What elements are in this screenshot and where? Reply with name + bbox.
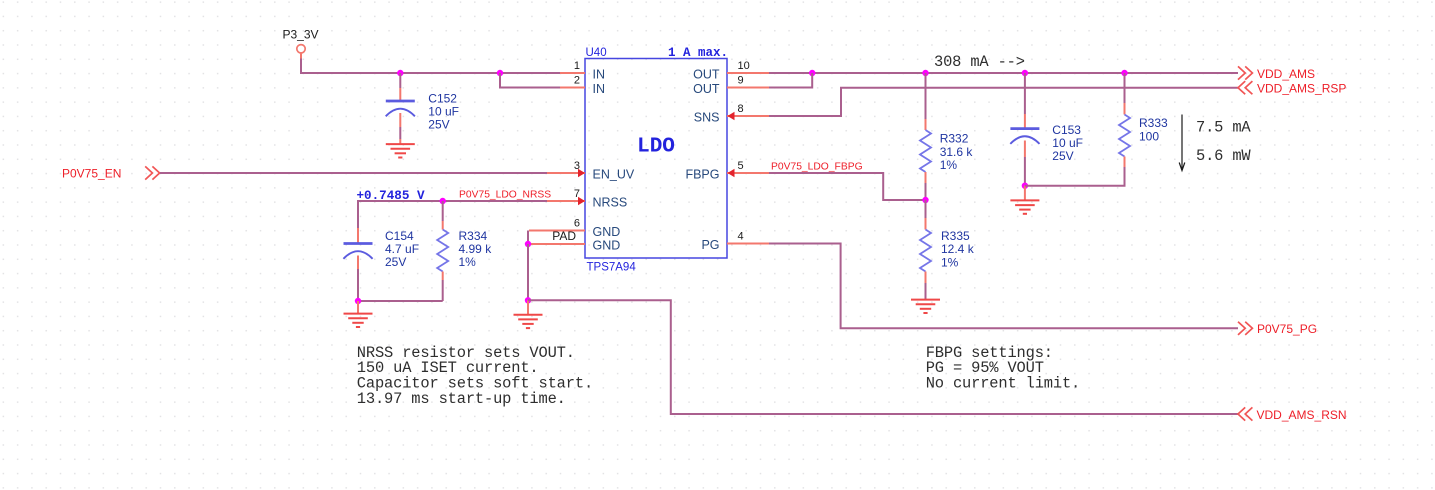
svg-text:25V: 25V xyxy=(428,118,449,132)
ground under C153 xyxy=(1010,186,1039,214)
current arrow 7.5 mA xyxy=(1179,115,1185,171)
svg-text:P0V75_EN: P0V75_EN xyxy=(62,166,121,180)
svg-text:1%: 1% xyxy=(940,158,958,172)
svg-text:R334: R334 xyxy=(459,229,488,243)
svg-text:1 A max.: 1 A max. xyxy=(668,46,728,60)
capacitor C154 xyxy=(343,228,372,301)
svg-text:FBPG: FBPG xyxy=(685,168,719,182)
svg-text:TPS7A94: TPS7A94 xyxy=(587,262,637,274)
svg-text:1: 1 xyxy=(574,60,580,72)
capacitor C153 xyxy=(1010,73,1039,186)
svg-text:R335: R335 xyxy=(941,229,970,243)
C154 value labels xyxy=(385,229,419,269)
wire C154 to R334 bottom xyxy=(358,300,443,302)
svg-text:EN_UV: EN_UV xyxy=(593,168,635,182)
pin 8 SNS xyxy=(694,103,769,125)
svg-text:P0V75_LDO_NRSS: P0V75_LDO_NRSS xyxy=(459,190,551,201)
svg-text:25V: 25V xyxy=(1052,149,1073,163)
junction C153 tap xyxy=(1022,70,1028,76)
svg-text:P0V75_PG: P0V75_PG xyxy=(1257,322,1317,336)
annotation FBPG notes xyxy=(926,344,1080,393)
op-amp U40 body (LDO) xyxy=(585,59,727,259)
svg-text:100: 100 xyxy=(1139,130,1159,144)
junction at R334 tap xyxy=(440,198,446,204)
svg-text:IN: IN xyxy=(593,82,606,96)
wire pin 9 riser xyxy=(769,73,812,88)
svg-text:5: 5 xyxy=(738,160,744,172)
svg-text:5.6 mW: 5.6 mW xyxy=(1196,147,1251,165)
junction R332 R335 FBPG xyxy=(922,197,928,203)
svg-text:13.97 ms start-up time.: 13.97 ms start-up time. xyxy=(357,390,566,408)
svg-text:VDD_AMS_RSP: VDD_AMS_RSP xyxy=(1257,81,1346,95)
svg-text:4.99 k: 4.99 k xyxy=(459,242,493,256)
junction ground RSN tap xyxy=(525,297,531,303)
svg-text:25V: 25V xyxy=(385,255,406,269)
wire P3_3V to pin 1 xyxy=(301,59,560,74)
port P0V75_PG xyxy=(1238,322,1252,335)
C153 value labels xyxy=(1052,123,1083,163)
junction at C152 tap xyxy=(397,70,403,76)
junction at pin 2 riser xyxy=(497,70,503,76)
resistor R333 xyxy=(1119,73,1130,167)
svg-text:PG: PG xyxy=(701,238,719,252)
pin 3 EN_UV xyxy=(547,160,635,182)
svg-text:308 mA -->: 308 mA --> xyxy=(934,53,1025,71)
R333 value labels xyxy=(1139,116,1168,144)
pin 10 OUT xyxy=(693,60,769,82)
pin 6 GND xyxy=(529,218,620,240)
pin PAD GND xyxy=(528,229,620,253)
wire VDD_AMS_RSP xyxy=(769,88,1238,116)
pin 5 FBPG xyxy=(685,160,769,182)
svg-text:C154: C154 xyxy=(385,229,414,243)
svg-text:6: 6 xyxy=(574,218,580,230)
pin 2 IN xyxy=(560,75,605,97)
svg-text:No current limit.: No current limit. xyxy=(926,375,1080,393)
ground at PAD xyxy=(514,300,543,328)
svg-text:10 uF: 10 uF xyxy=(428,105,459,119)
pin 9 OUT xyxy=(693,75,769,97)
svg-text:LDO: LDO xyxy=(637,136,675,159)
svg-text:1%: 1% xyxy=(941,256,959,270)
svg-text:IN: IN xyxy=(593,68,606,82)
capacitor C152 xyxy=(386,73,415,144)
svg-text:C153: C153 xyxy=(1052,123,1081,137)
junction C153 bottom xyxy=(1022,183,1028,189)
wire pin 2 riser xyxy=(500,73,560,88)
resistor R332 xyxy=(920,73,931,200)
wire pin 6 elbow to PAD xyxy=(527,231,529,245)
svg-text:R333: R333 xyxy=(1139,116,1168,130)
junction pin 9 riser xyxy=(809,70,815,76)
resistor R335 xyxy=(920,200,931,300)
wire FBPG net xyxy=(769,173,926,200)
ground under C152 xyxy=(386,144,415,157)
port VDD_AMS_RSN xyxy=(1238,407,1252,420)
svg-text:U40: U40 xyxy=(586,47,607,59)
wire +0.7485V node to pin 7 xyxy=(358,201,547,228)
svg-text:3: 3 xyxy=(574,160,580,172)
svg-text:7: 7 xyxy=(574,188,580,200)
svg-text:7.5 mA: 7.5 mA xyxy=(1196,118,1251,136)
annotation NRSS notes xyxy=(357,344,593,408)
wire P0V75_PG xyxy=(769,244,1238,329)
svg-text:OUT: OUT xyxy=(693,68,720,82)
svg-text:R332: R332 xyxy=(940,132,969,146)
svg-text:PAD: PAD xyxy=(552,229,576,243)
svg-text:4.7 uF: 4.7 uF xyxy=(385,242,419,256)
svg-text:10: 10 xyxy=(738,60,750,72)
svg-text:GND: GND xyxy=(593,225,621,239)
svg-text:P3_3V: P3_3V xyxy=(282,28,318,42)
svg-text:VDD_AMS_RSN: VDD_AMS_RSN xyxy=(1257,408,1347,422)
ground under R335 xyxy=(911,300,940,313)
R332 value labels xyxy=(940,132,974,173)
wire P0V75_EN to pin 3 xyxy=(160,172,547,174)
svg-text:C152: C152 xyxy=(428,92,457,106)
input port P0V75_EN xyxy=(145,166,159,179)
svg-text:4: 4 xyxy=(738,231,744,243)
R335 value labels xyxy=(941,229,975,270)
svg-text:12.4 k: 12.4 k xyxy=(941,242,975,256)
svg-text:1%: 1% xyxy=(459,255,477,269)
svg-text:2: 2 xyxy=(574,75,580,87)
ground under C154 xyxy=(344,301,373,327)
svg-text:GND: GND xyxy=(593,239,621,253)
svg-text:VDD_AMS: VDD_AMS xyxy=(1257,67,1315,81)
wire PAD node down xyxy=(527,244,529,300)
R334 value labels xyxy=(459,229,493,269)
svg-text:9: 9 xyxy=(738,75,744,87)
svg-text:NRSS: NRSS xyxy=(593,196,628,210)
wire C153 to R333 bottom xyxy=(1025,167,1125,186)
pin 4 PG xyxy=(701,231,769,253)
svg-text:8: 8 xyxy=(738,103,744,115)
junction C154/R334 bottom xyxy=(355,298,361,304)
svg-text:31.6 k: 31.6 k xyxy=(940,145,974,159)
power symbol P3_3V xyxy=(297,45,305,59)
pin 7 NRSS xyxy=(547,188,627,210)
port VDD_AMS xyxy=(1238,66,1252,79)
svg-text:P0V75_LDO_FBPG: P0V75_LDO_FBPG xyxy=(771,161,863,172)
junction R333 tap xyxy=(1121,70,1127,76)
pin 1 IN xyxy=(560,60,605,82)
C152 value labels xyxy=(428,92,459,132)
resistor R334 xyxy=(437,201,448,301)
svg-text:SNS: SNS xyxy=(694,111,720,125)
svg-text:OUT: OUT xyxy=(693,82,720,96)
port VDD_AMS_RSP xyxy=(1238,81,1252,94)
junction PAD node xyxy=(525,241,531,247)
junction R332 tap xyxy=(922,70,928,76)
wire VDD_AMS_RSN xyxy=(528,300,1238,414)
wire VDD_AMS xyxy=(769,72,1238,74)
